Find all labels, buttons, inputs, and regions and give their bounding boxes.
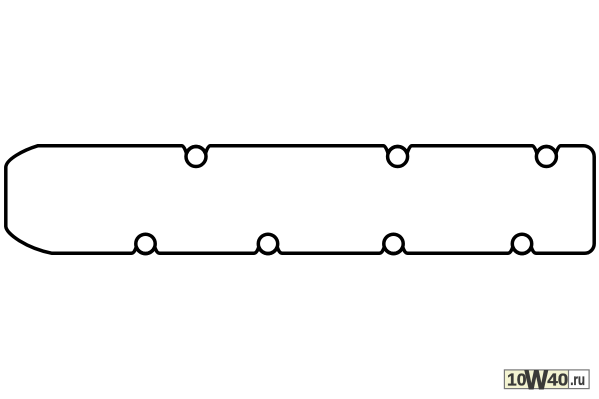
svg-text:W: W (525, 365, 548, 395)
svg-text:10: 10 (507, 370, 526, 390)
bolt hole bottom 4 (512, 234, 531, 253)
bolt hole top 1 (186, 147, 206, 167)
watermark yellow cell (505, 371, 568, 389)
gasket outline (6, 146, 594, 254)
svg-text:.ru: .ru (570, 372, 585, 389)
bolt hole bottom 3 (384, 234, 403, 253)
watermark box border (504, 370, 589, 389)
bolt hole top 3 (536, 147, 556, 167)
svg-text:40: 40 (547, 370, 568, 390)
bolt hole bottom 2 (258, 234, 277, 253)
watermark cell divider (568, 370, 570, 389)
bolt hole bottom 1 (136, 234, 155, 253)
bolt hole top 2 (388, 147, 408, 167)
